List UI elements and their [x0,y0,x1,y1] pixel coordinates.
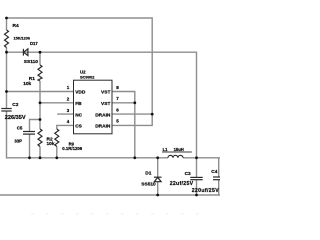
node diode row R1 tap [39,51,42,54]
svg-text:DRAIN: DRAIN [95,124,111,130]
svg-text:SS110: SS110 [24,59,38,65]
svg-text:C3: C3 [185,171,191,177]
node switch node [156,156,159,159]
wire C5 branch [30,120,41,132]
wire C4 branch [218,158,220,177]
wire mid rail right [183,157,220,159]
wire top rail [7,18,153,114]
node R2 bottom [39,156,42,159]
wire pin5 DRAIN [112,114,152,125]
svg-text:SS510: SS510 [141,182,156,188]
wire pin1 VDD [7,91,74,93]
svg-text:C5: C5 [17,125,23,130]
svg-text:10k: 10k [47,141,55,147]
wire pin4 CS [57,125,74,129]
svg-text:VST: VST [101,90,110,96]
svg-text:SC9902: SC9902 [80,75,95,80]
svg-text:C4: C4 [211,169,217,175]
wire pin7 VST [112,102,135,104]
capacitor C2 [1,108,11,110]
wire R9 bottom [56,147,58,158]
wire R2 bottom [39,147,41,158]
svg-text:D1: D1 [145,171,151,177]
wire D1 branch [157,158,159,177]
svg-text:33P: 33P [14,138,22,143]
node C3 ground [195,194,198,197]
node FB junction [39,101,42,104]
svg-text:C2: C2 [12,102,18,108]
node R9 bottom [55,156,58,159]
svg-text:NC: NC [75,112,82,118]
svg-text:D17: D17 [30,41,38,46]
wire node FB vertical [39,52,41,65]
wire pin3 NC stub [57,113,73,115]
node top-left corner [5,17,8,20]
sheet boundary faint [31,213,205,215]
resistor R9 [55,129,59,147]
wire R4 bottom to diode row [6,48,8,53]
svg-text:0.1R/1206: 0.1R/1206 [62,146,82,151]
diode D1 [154,176,162,178]
wire C3 branch [196,158,198,177]
resistor R1 [38,65,42,81]
inductor L1 [168,155,183,158]
node VDD left [5,90,8,93]
node VST bottom [133,156,136,159]
svg-text:22uf/25V: 22uf/25V [170,181,194,187]
svg-text:L1: L1 [163,147,169,152]
resistor R2 [38,129,42,147]
svg-text:VST: VST [101,101,110,107]
capacitor C4 [213,176,220,178]
op-amp U2 SC9902 IC box [74,80,113,134]
wire left rail lower + mid rail left [7,111,169,158]
resistor R4 [5,30,9,48]
svg-text:15uH: 15uH [174,147,184,152]
svg-text:DRAIN: DRAIN [95,112,111,118]
wire left rail upper [6,18,8,30]
capacitor C5 [23,131,35,133]
node C5 tap [39,118,42,121]
node D1 ground [156,194,159,197]
capacitor C3 [190,176,202,178]
wire ground rail [0,194,220,196]
wire left rail mid [6,52,8,108]
svg-text:FB: FB [75,101,82,107]
svg-text:VDD: VDD [75,90,86,96]
wire diode row [7,52,197,158]
node pin6 junction [151,113,154,116]
node diode row left [5,51,8,54]
wire pin2 FB [40,102,74,104]
svg-text:226/35V: 226/35V [5,115,26,121]
wire pin6 DRAIN [112,113,152,115]
node pin7 junction [133,101,136,104]
svg-text:220uf/25V: 220uf/25V [192,188,220,194]
node C5 bottom [28,156,31,159]
svg-text:10k: 10k [23,81,31,87]
node output [195,156,198,159]
svg-text:CS: CS [75,124,82,130]
diode D17 [22,49,24,56]
svg-text:R4: R4 [13,23,19,29]
svg-text:15K/1206: 15K/1206 [14,36,30,40]
wire pin8 VST [112,92,135,158]
